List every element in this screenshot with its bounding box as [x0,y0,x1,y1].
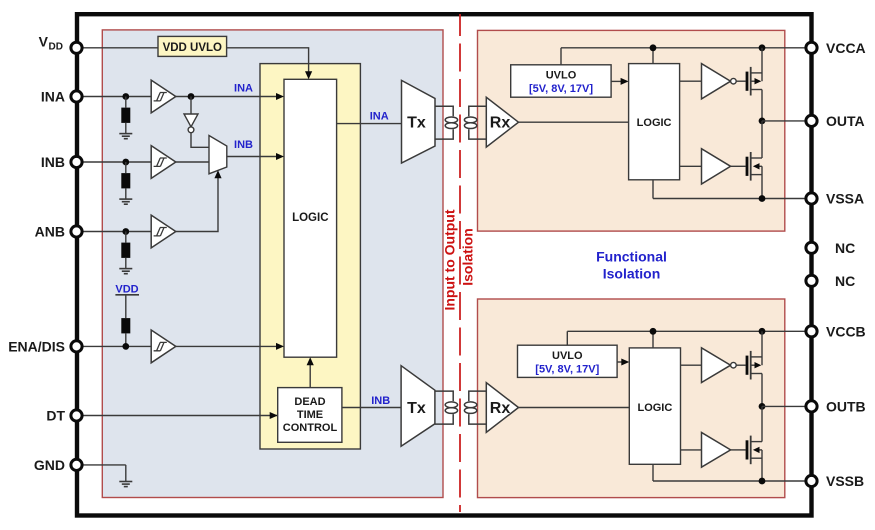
svg-text:Tx: Tx [407,400,426,417]
wire buffer B to NMOS gate [731,449,746,451]
wire Rx B to logic B [519,407,630,409]
svg-text:Rx: Rx [490,400,511,417]
svg-text:ANB: ANB [35,224,65,240]
wire buffer B to PMOS gate [736,364,745,366]
wire GND to ground [125,465,127,482]
svg-text:INA: INA [370,110,389,122]
VDD rail label (pull-up) [115,284,139,296]
pin OUTB [806,398,866,414]
wire UVLO A to VCCA rail [560,48,562,65]
wire ENA to logic [176,345,277,347]
svg-text:OUTA: OUTA [826,113,865,129]
wire resistor to ground [125,232,127,269]
svg-text:[5V, 8V, 17V]: [5V, 8V, 17V] [535,364,599,376]
ground symbol at GND pin [119,482,132,487]
input-side section box [102,30,443,498]
node PMOS A / VCCA [759,44,766,51]
Rx A receiver [486,97,518,147]
svg-text:VDD UVLO: VDD UVLO [163,42,222,54]
svg-text:INA: INA [41,89,65,105]
logic surround (yellow) [260,64,360,449]
svg-text:INA: INA [234,83,253,95]
wire inverter to mux [191,133,209,148]
svg-text:NC: NC [835,240,855,256]
ground INB [119,199,132,204]
arrow select into mux [214,170,221,178]
node after schmitt INA [188,93,195,100]
wires transformer T2 to Rx B [469,391,487,424]
svg-text:VCCA: VCCA [826,40,866,56]
arrow UVLO A into logic A [621,78,629,85]
wire buffer A to PMOS gate [736,80,745,82]
node logic B / VCCB [650,328,657,335]
transformer T2 secondary winding [464,402,476,414]
node INA junction [122,93,129,100]
ground INA [119,134,132,139]
svg-text:NC: NC [835,273,855,289]
isolation label [442,209,476,310]
UVLO B block [518,345,618,377]
svg-text:DD: DD [49,42,63,53]
pin GND [34,457,126,473]
wire UVLO B to logic B [617,361,622,363]
svg-text:TIME: TIME [297,409,323,421]
wire UVLO A to logic A [611,80,621,82]
node OUTB [759,403,766,410]
node logic A / VCCA [650,44,657,51]
svg-text:Tx: Tx [407,115,426,132]
svg-text:Input to Output: Input to Output [442,209,458,310]
pin VSSA [806,191,864,207]
VDD UVLO block [158,36,227,56]
bottom buffer A [702,149,731,184]
pin VDD [39,34,158,54]
wires Tx A to transformer T1 [435,106,453,139]
svg-text:Functional: Functional [596,249,667,265]
wire DTC to logic [309,364,311,388]
wire UVLO B to VCCB rail [566,331,568,345]
resistor ANB pulldown [121,243,130,258]
svg-text:INB: INB [371,395,390,407]
svg-text:VCCB: VCCB [826,323,866,339]
Tx A driver [402,80,436,163]
top buffer B (inverting) [702,348,737,383]
arrow DT into dead-time control [270,412,278,419]
wire resistor to ENA node [125,333,127,346]
arrow INA into logic [276,93,284,100]
svg-text:CONTROL: CONTROL [283,422,338,434]
svg-text:DEAD: DEAD [294,396,325,408]
pin DT [46,408,277,424]
arrow into logic top [305,71,312,79]
svg-text:VSSB: VSSB [826,473,864,489]
wire logic A to VSSA rail [652,180,654,199]
wire INA to logic [176,96,277,98]
resistor ENA pull-up [121,318,130,333]
UVLO A block [511,65,611,97]
wire VDD UVLO to logic [227,48,309,72]
logic B block [629,348,680,464]
transistor NMOS B [746,406,762,481]
node OUTA [759,118,766,125]
arrow ENA into logic [276,343,284,350]
pin ENA/DIS [8,338,151,354]
pin NC 2 [806,273,855,289]
pin INB [41,154,151,170]
transistor NMOS A [746,121,762,199]
svg-text:VSSA: VSSA [826,191,864,207]
svg-text:DT: DT [46,408,65,424]
svg-text:UVLO: UVLO [546,70,577,82]
svg-text:ENA/DIS: ENA/DIS [8,338,65,354]
wire resistor to ground [125,97,127,134]
wire DTC INB out to Tx B [342,407,401,409]
mux [209,136,227,174]
arrow UVLO B into logic B [621,359,629,366]
functional isolation label [596,249,667,282]
arrow INB into logic [276,153,284,160]
svg-text:INB: INB [41,154,65,170]
wire to inverter [190,97,192,115]
node INB junction [122,159,129,166]
arrow DTC into logic bottom [307,357,314,365]
channel B section box [478,299,785,498]
transformer T1 primary winding [445,117,457,129]
wire resistor to ground [125,162,127,199]
svg-text:INB: INB [234,139,253,151]
channel A section box [478,30,785,231]
bottom buffer B [702,433,731,468]
wire Rx A to logic A [519,121,629,123]
wire logic B to VSSB rail [652,464,654,481]
svg-text:LOGIC: LOGIC [637,117,672,129]
dead time control block [278,388,342,443]
pin VCCB [806,323,866,339]
wires transformer T1 to Rx A [469,106,487,139]
pin NC 1 [806,240,855,256]
VCCB rail [567,330,804,332]
transistor PMOS B [746,331,762,406]
svg-text:OUTB: OUTB [826,398,866,414]
pin INA [41,89,151,105]
wire logic A to top buffer A [680,80,702,82]
wire buffer A to NMOS gate [731,165,746,167]
node ANB junction [122,228,129,235]
top buffer A (inverting) [702,64,737,99]
wire VDD to resistor [125,295,127,318]
isolation barrier dashed line [459,14,461,512]
pin ANB [35,224,152,240]
transformer T1 secondary winding [464,117,476,129]
svg-text:GND: GND [34,457,65,473]
transformer T2 primary winding [445,402,457,414]
resistor INB pulldown [121,173,130,188]
schmitt buffer ENA/DIS [151,330,176,363]
transistor PMOS A [746,48,762,121]
pin OUTA [806,113,865,129]
node PMOS B / VCCB [759,328,766,335]
inverter (INA to mux) [184,114,198,133]
svg-text:[5V, 8V, 17V]: [5V, 8V, 17V] [529,83,593,95]
VSSB rail [653,480,805,482]
wire ANB select to mux [176,178,218,232]
package border [77,14,812,515]
wire logic A to VCCA rail [652,48,654,64]
svg-text:Isolation: Isolation [460,228,476,286]
VSSA rail [653,198,805,200]
node NMOS B / VSSB [759,478,766,485]
Rx B receiver [486,383,518,433]
svg-text:Isolation: Isolation [603,266,661,282]
wire mux output INB to logic [227,156,277,158]
svg-text:VDD: VDD [115,284,138,296]
node NMOS A / VSSA [759,195,766,202]
pin VCCA [806,40,866,56]
wire to OUTA pin [762,120,805,122]
schmitt buffer INB [151,146,176,179]
logic A block [629,64,680,180]
wire to OUTB pin [762,405,805,407]
wire logic A to bottom buffer A [680,165,702,167]
ground ANB [119,269,132,274]
pin VSSB [806,473,864,489]
VCCA rail [561,47,805,49]
svg-text:Rx: Rx [490,115,511,132]
schmitt buffer ANB [151,215,176,248]
node ENA junction [122,343,129,350]
wires Tx B to transformer T2 [435,391,453,424]
svg-text:V: V [39,34,49,50]
Tx B driver [401,366,435,447]
svg-text:UVLO: UVLO [552,350,583,362]
svg-text:LOGIC: LOGIC [637,402,672,414]
wire INB schmitt to mux [176,161,209,163]
svg-text:LOGIC: LOGIC [292,212,328,224]
logic block [284,79,337,357]
wire logic INA out to Tx A [337,123,402,125]
wire logic B to VCCB rail [652,331,654,348]
schmitt buffer INA [151,80,176,113]
wire logic B to bottom buffer B [681,449,702,451]
resistor INA pulldown [121,108,130,123]
wire logic B to top buffer B [681,364,702,366]
